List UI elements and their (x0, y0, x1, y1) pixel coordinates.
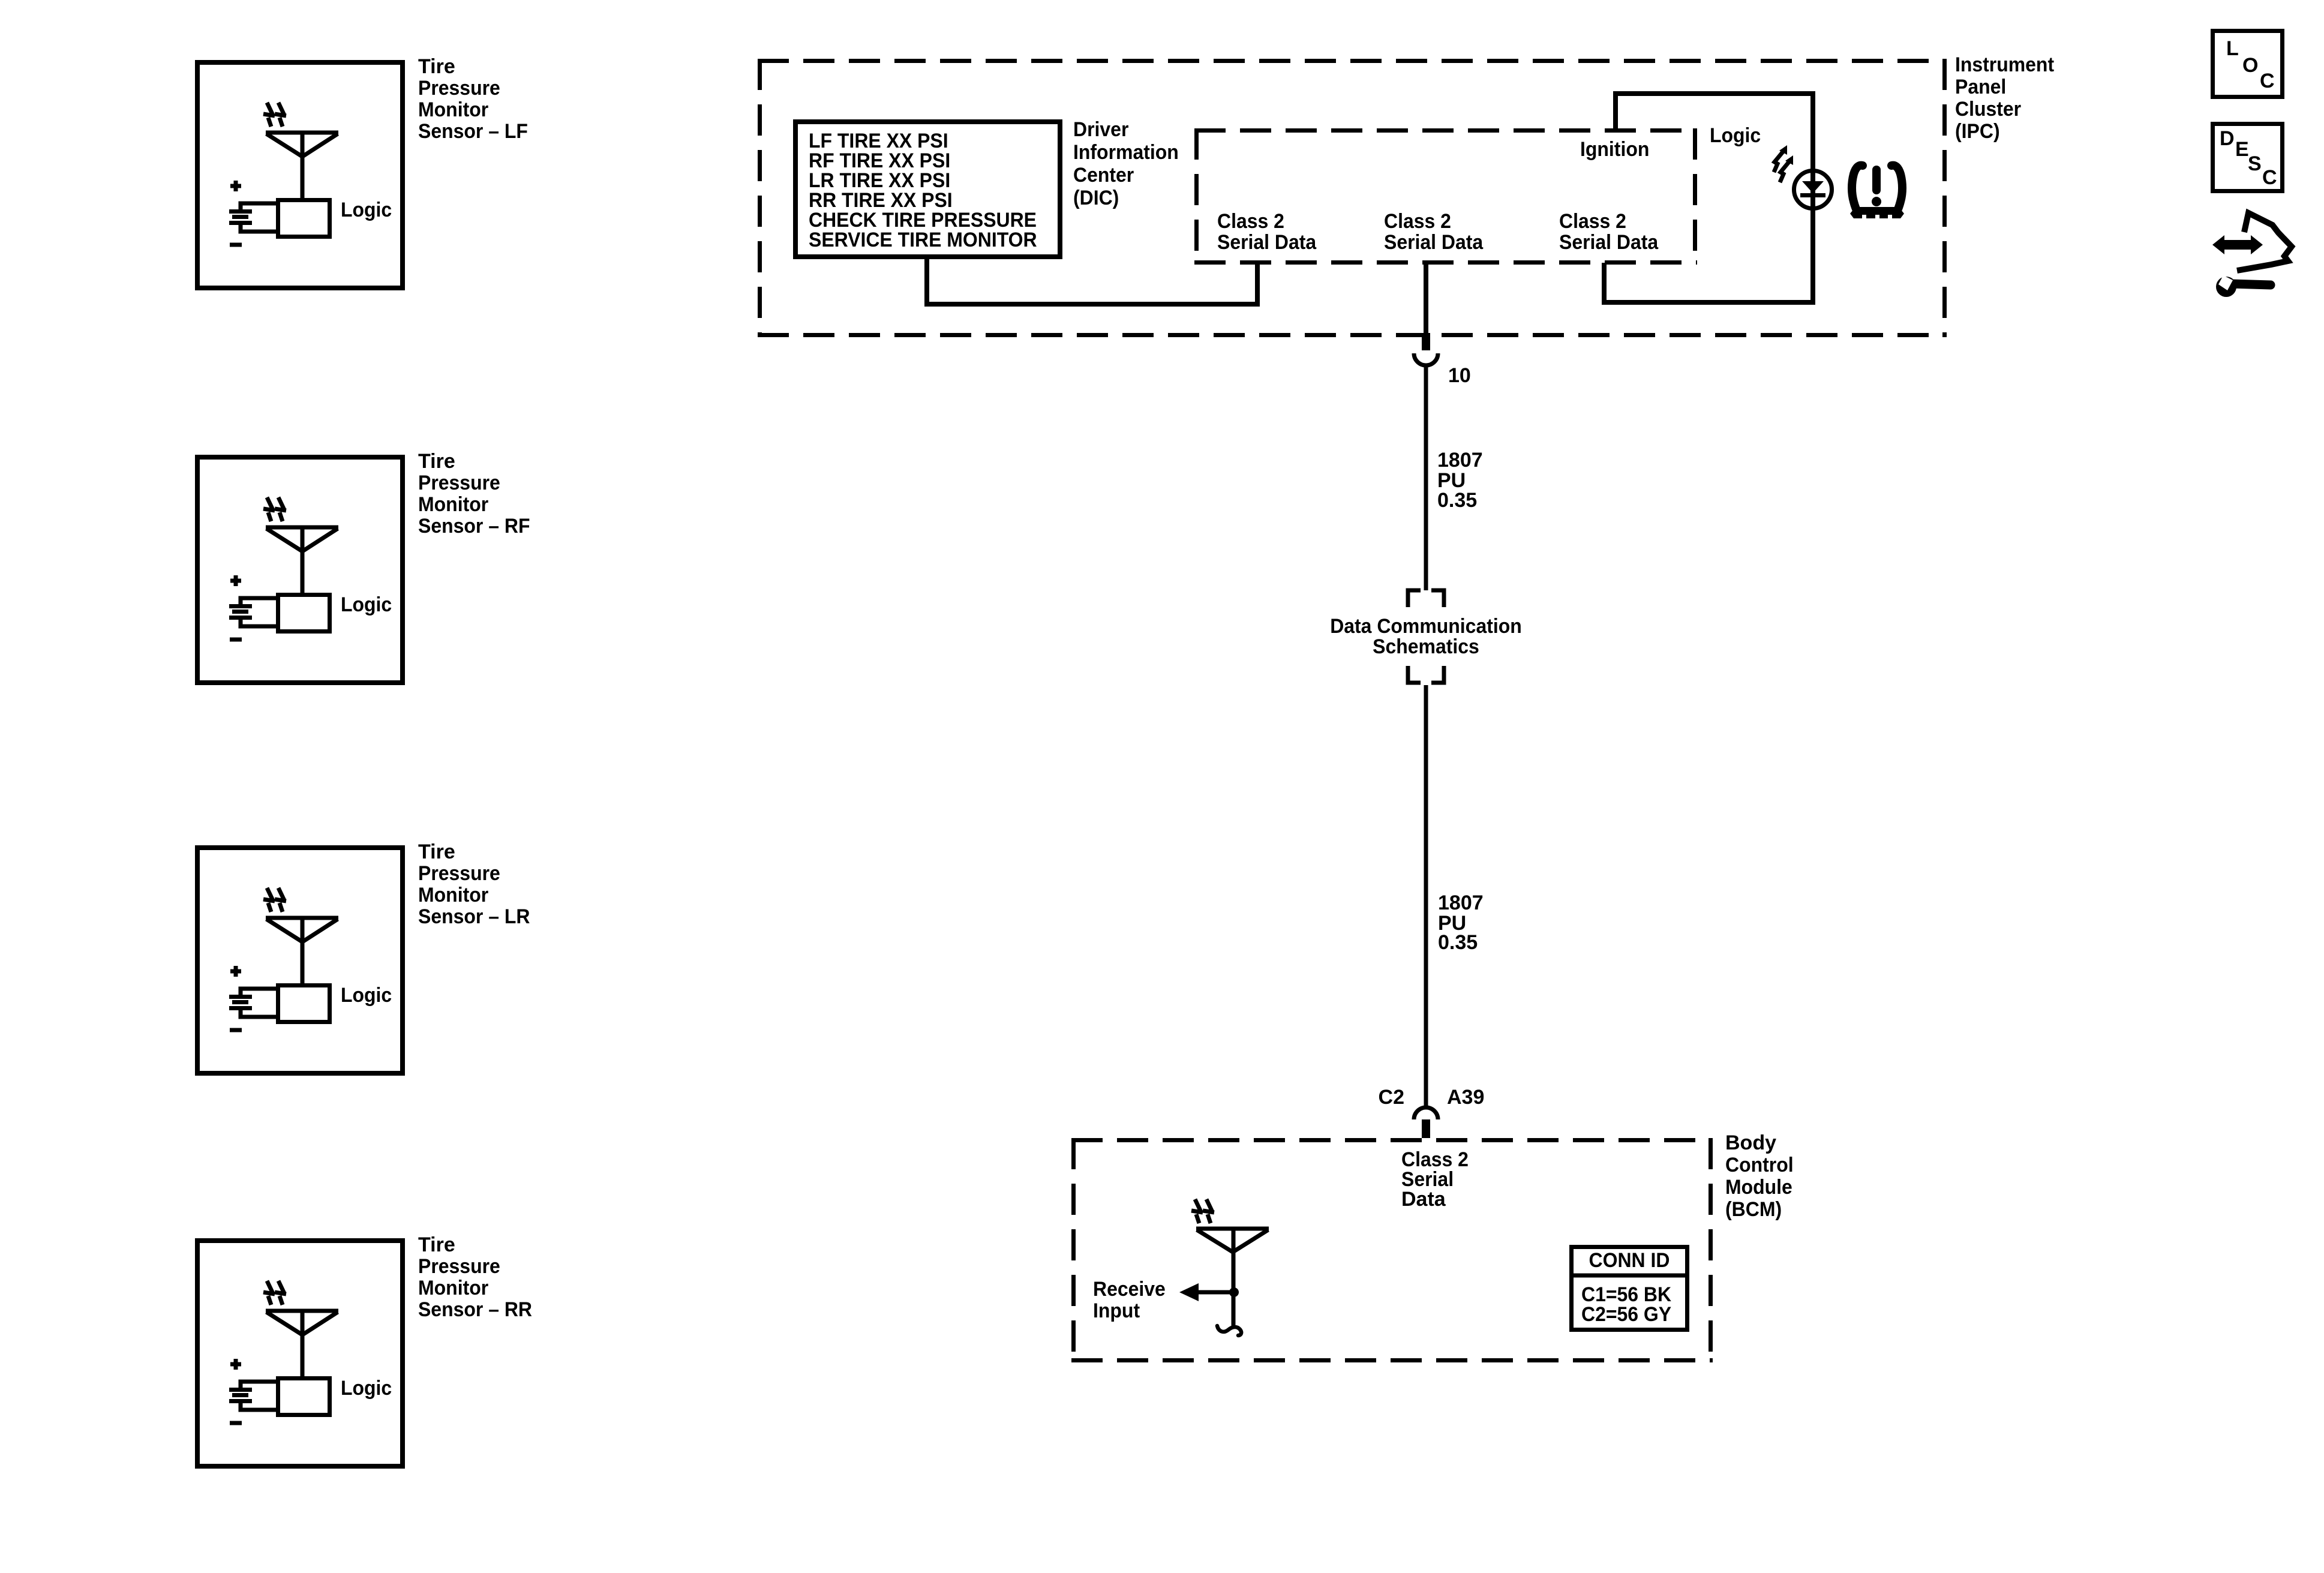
svg-text:Serial Data: Serial Data (1384, 231, 1484, 254)
sensor RR antenna (266, 1311, 338, 1376)
LED emission arrow 1 (1774, 145, 1787, 172)
svg-text:Input: Input (1093, 1299, 1140, 1322)
svg-text:0.35: 0.35 (1438, 931, 1478, 954)
svg-text:Pressure: Pressure (418, 472, 500, 494)
sensor RF RF bolt 2 (275, 497, 286, 521)
off-page reference bracket bottom (1408, 666, 1444, 683)
sensor LF battery (229, 212, 252, 223)
sensor RF wire battery to logic top (241, 598, 277, 606)
sensor LF battery plus (230, 181, 241, 191)
sensor LR RF bolt 1 (263, 888, 275, 912)
sensor RR wire battery to logic top (241, 1382, 277, 1389)
sensor LF battery minus (230, 243, 242, 247)
svg-text:Driver: Driver (1073, 118, 1128, 141)
sensor RR battery (229, 1390, 252, 1401)
svg-text:Tire: Tire (418, 450, 455, 473)
sensor LF antenna (266, 133, 338, 198)
LOC reference box (2213, 31, 2283, 97)
svg-text:Tire: Tire (418, 55, 455, 78)
wire class2 serial data 2 down to IPC edge (1424, 263, 1428, 333)
Tire Pressure Monitor Sensor RR box (197, 1241, 403, 1466)
sensor RF RF bolt 1 (263, 497, 275, 521)
sensor RF antenna (266, 527, 338, 593)
CONN ID table box (1572, 1247, 1688, 1330)
svg-text:Body: Body (1725, 1131, 1776, 1154)
sensor LR wire battery to logic top (241, 989, 277, 996)
sensor LF logic box (278, 200, 330, 237)
BCM receive antenna (1196, 1229, 1269, 1329)
svg-text:Data Communication: Data Communication (1330, 615, 1522, 638)
svg-text:Cluster: Cluster (1955, 98, 2021, 121)
sensor LR battery minus (230, 1028, 242, 1032)
sensor LR battery plus (230, 966, 241, 977)
svg-text:Receive: Receive (1093, 1278, 1166, 1301)
svg-text:A39: A39 (1447, 1086, 1484, 1109)
TPMS warning icon (1850, 166, 1904, 219)
svg-text:Schematics: Schematics (1373, 635, 1479, 658)
sensor LR logic box (278, 986, 330, 1022)
component view icon double arrow (2212, 235, 2263, 254)
sensor RR battery minus (230, 1421, 242, 1425)
BCM connector socket arc (1414, 1107, 1438, 1119)
svg-text:(BCM): (BCM) (1725, 1198, 1782, 1221)
LED emission arrow 2 (1780, 155, 1793, 182)
wire 1807 PU lower (1424, 685, 1428, 1106)
LED diode triangle (1802, 181, 1824, 193)
sensor RF wire battery to logic bottom (241, 618, 277, 626)
BCM antenna end squiggle (1217, 1326, 1241, 1335)
svg-text:Class 2: Class 2 (1217, 210, 1284, 233)
svg-text:Data: Data (1401, 1188, 1446, 1211)
svg-text:Pressure: Pressure (418, 1255, 500, 1278)
sensor LF wire battery to logic top (241, 203, 277, 211)
svg-text:E: E (2235, 138, 2249, 161)
BCM receive input arrow (1198, 1290, 1233, 1295)
sensor RR battery plus (230, 1359, 241, 1370)
svg-text:10: 10 (1448, 364, 1471, 387)
sensor RF battery (229, 607, 252, 618)
Tire Pressure Monitor Sensor RF box (197, 457, 403, 683)
svg-text:1807: 1807 (1437, 449, 1483, 472)
svg-text:Ignition: Ignition (1580, 138, 1649, 161)
svg-text:Pressure: Pressure (418, 862, 500, 885)
Driver Information Center (DIC) box (795, 122, 1060, 257)
Instrument Panel Cluster (IPC) dashed box (758, 59, 1947, 337)
sensor LF RF bolt 2 (275, 103, 286, 127)
BCM RF bolt 1 (1191, 1199, 1203, 1223)
BCM RF bolt 2 (1203, 1199, 1214, 1223)
svg-text:Serial Data: Serial Data (1559, 231, 1659, 254)
svg-text:S: S (2248, 152, 2262, 175)
wire DIC to class2 serial data 1 (927, 259, 1257, 304)
svg-text:Sensor – LF: Sensor – LF (418, 120, 528, 143)
svg-text:C2: C2 (1379, 1086, 1404, 1109)
svg-text:Logic: Logic (1710, 124, 1761, 147)
svg-text:(IPC): (IPC) (1955, 120, 2000, 143)
svg-text:Logic: Logic (341, 593, 392, 616)
sensor RR wire battery to logic bottom (241, 1401, 277, 1410)
svg-text:(DIC): (DIC) (1073, 187, 1119, 209)
wire logic loop with LED (1604, 94, 1813, 302)
svg-text:Class 2: Class 2 (1384, 210, 1451, 233)
sensor RR RF bolt 1 (263, 1281, 275, 1305)
svg-text:Information: Information (1073, 141, 1179, 164)
svg-text:Sensor – RF: Sensor – RF (418, 515, 530, 538)
Body Control Module (BCM) dashed box (1071, 1138, 1713, 1362)
IPC inner logic dashed box (1194, 128, 1697, 265)
svg-text:D: D (2220, 127, 2235, 150)
svg-text:Serial Data: Serial Data (1217, 231, 1317, 254)
svg-text:Monitor: Monitor (418, 1277, 488, 1299)
sensor LR wire battery to logic bottom (241, 1008, 277, 1017)
svg-text:CONN ID: CONN ID (1589, 1249, 1670, 1272)
sensor RF battery plus (230, 575, 241, 586)
wire 1807 PU upper (1424, 367, 1428, 590)
off-page reference bracket top (1408, 590, 1444, 607)
svg-text:C: C (2260, 70, 2275, 92)
sensor RR RF bolt 2 (275, 1281, 286, 1305)
LED cathode bar (1800, 193, 1825, 197)
svg-text:Control: Control (1725, 1154, 1794, 1176)
sensor RF logic box (278, 595, 330, 632)
svg-text:Tire: Tire (418, 840, 455, 863)
svg-text:Pressure: Pressure (418, 77, 500, 100)
sensor RR logic box (278, 1379, 330, 1415)
svg-text:Tire: Tire (418, 1233, 455, 1256)
sensor LF RF bolt 1 (263, 103, 275, 127)
svg-text:SERVICE TIRE MONITOR: SERVICE TIRE MONITOR (809, 229, 1037, 251)
Tire Pressure Monitor Sensor LF box (197, 62, 403, 288)
svg-text:Panel: Panel (1955, 76, 2006, 98)
sensor LR antenna (266, 918, 338, 983)
svg-text:Monitor: Monitor (418, 884, 488, 906)
svg-text:Logic: Logic (341, 984, 392, 1007)
svg-text:Logic: Logic (341, 1377, 392, 1400)
SENSORS (197, 55, 528, 288)
CONN ID table divider (1569, 1274, 1689, 1278)
inline connector terminal square (pin 10) (1422, 333, 1430, 350)
svg-text:Monitor: Monitor (418, 98, 488, 121)
svg-text:C: C (2262, 166, 2277, 189)
sensor RF battery minus (230, 638, 242, 642)
svg-text:Module: Module (1725, 1176, 1792, 1199)
svg-text:Monitor: Monitor (418, 493, 488, 516)
inline connector socket arc (1414, 353, 1438, 365)
svg-text:C2=56 GY: C2=56 GY (1581, 1303, 1671, 1326)
svg-text:1807: 1807 (1438, 891, 1484, 914)
sensor LR battery (229, 997, 252, 1008)
component view icon part outline (2237, 213, 2292, 271)
sensor LF wire battery to logic bottom (241, 223, 277, 232)
BCM antenna junction dot (1229, 1287, 1239, 1297)
Tire Pressure Monitor Sensor LR box (197, 848, 403, 1073)
svg-text:L: L (2226, 37, 2239, 60)
svg-text:Sensor – RR: Sensor – RR (418, 1298, 532, 1321)
LED lamp circle (1794, 171, 1832, 209)
sensor LR RF bolt 2 (275, 888, 286, 912)
svg-text:Center: Center (1073, 164, 1134, 187)
svg-text:Logic: Logic (341, 199, 392, 221)
DESC reference box (2213, 124, 2283, 191)
BCM connector terminal square (1422, 1119, 1430, 1138)
svg-text:0.35: 0.35 (1437, 489, 1477, 512)
svg-text:O: O (2242, 54, 2258, 77)
component view icon wrench (2216, 275, 2271, 297)
svg-text:Instrument: Instrument (1955, 53, 2054, 76)
svg-text:Class 2: Class 2 (1559, 210, 1626, 233)
svg-text:Sensor – LR: Sensor – LR (418, 905, 530, 928)
